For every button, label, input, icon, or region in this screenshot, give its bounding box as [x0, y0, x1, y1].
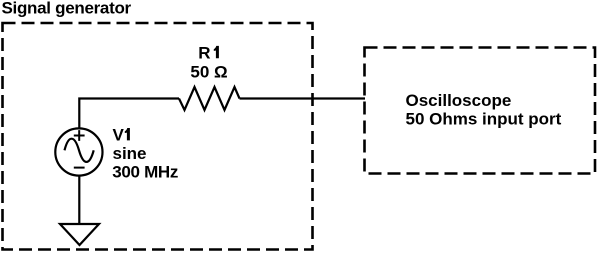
voltage source V1: [55, 128, 102, 175]
wire: V1 bottom to ground: [78, 175, 80, 224]
svg-text:Oscilloscope: Oscilloscope: [406, 91, 512, 110]
svg-text:300 MHz: 300 MHz: [112, 163, 178, 182]
ground: [60, 224, 99, 245]
enclosure: oscilloscope dashed box: [365, 48, 596, 174]
svg-text:R: R: [198, 43, 210, 62]
V1 polarity minus sign: [74, 167, 85, 169]
svg-text:50 Ohms input port: 50 Ohms input port: [406, 110, 562, 129]
wire: V1 top to R1 left: [79, 99, 179, 130]
svg-text:V: V: [113, 125, 125, 144]
V1 polarity plus sign: [74, 130, 85, 141]
V1 sine waveform symbol: [65, 139, 94, 162]
wire: R1 right to oscilloscope input: [240, 97, 366, 99]
svg-text:sine: sine: [113, 144, 147, 163]
enclosure: signal generator dashed box: [3, 23, 313, 250]
resistor R1: [179, 87, 240, 110]
svg-text:Signal generator: Signal generator: [2, 0, 132, 18]
svg-text:50 Ω: 50 Ω: [190, 63, 227, 82]
